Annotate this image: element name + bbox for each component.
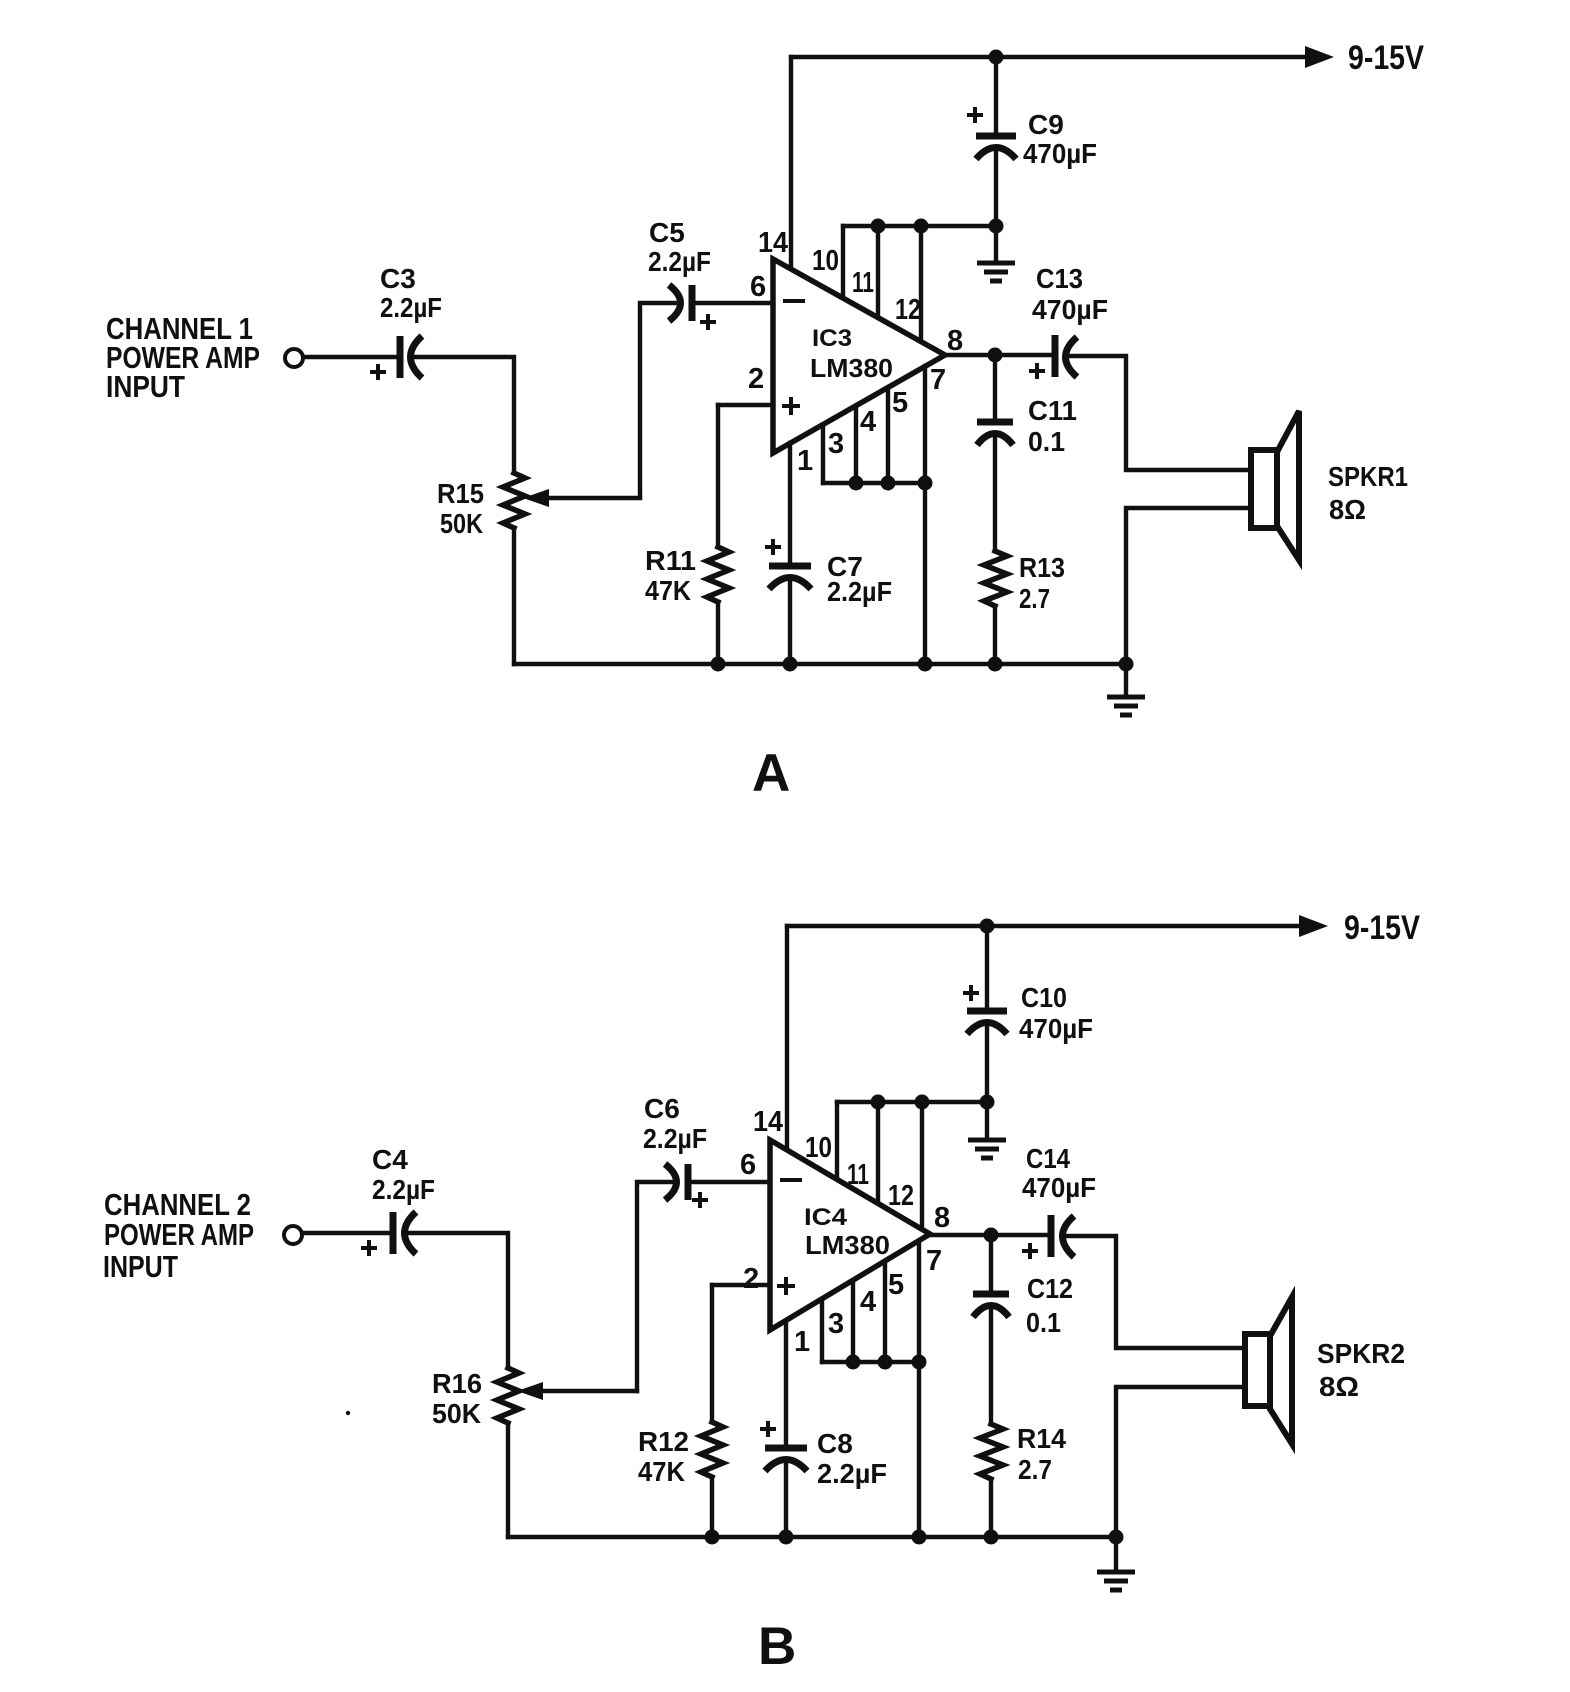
node: bus junction pin7 xyxy=(918,476,933,491)
wire: pin 5 B xyxy=(883,1262,887,1362)
node: rail junction R13/C11 xyxy=(988,657,1003,672)
stray printing speck xyxy=(346,1411,350,1415)
wire: pin 8 output xyxy=(945,353,1053,357)
resistor R12 47K xyxy=(701,1422,723,1477)
node: bus junction pin12 B xyxy=(915,1095,930,1110)
svg-text:SPKR2: SPKR2 xyxy=(1317,1338,1405,1369)
wire: R11 bottom to rail xyxy=(716,602,720,664)
wire: pin 12 B xyxy=(920,1102,924,1230)
node: rail junction speaker return xyxy=(1119,657,1134,672)
wire: R14 bottom to rail B xyxy=(989,1479,993,1537)
wire: V+ supply rail A xyxy=(791,55,1308,59)
svg-text:1: 1 xyxy=(797,445,813,477)
resistor R13 2.7 xyxy=(984,551,1007,606)
wire: C4 to corner above R16 xyxy=(406,1233,508,1368)
svg-text:14: 14 xyxy=(758,227,788,259)
node: rail junction pin7 xyxy=(918,657,933,672)
svg-text:8Ω: 8Ω xyxy=(1329,494,1366,525)
svg-text:6: 6 xyxy=(740,1149,756,1181)
svg-text:3: 3 xyxy=(828,428,844,460)
svg-text:47K: 47K xyxy=(645,575,691,606)
capacitor C9 470uF xyxy=(976,133,1016,140)
svg-text:470µF: 470µF xyxy=(1019,1013,1093,1044)
svg-text:C13: C13 xyxy=(1036,263,1083,294)
svg-text:4: 4 xyxy=(860,406,876,438)
svg-text:C8: C8 xyxy=(817,1428,853,1459)
capacitor C14 470uF xyxy=(1048,1215,1055,1257)
potentiometer R15 50K xyxy=(503,473,525,528)
capacitor C8 2.2uF xyxy=(765,1445,807,1452)
svg-text:2: 2 xyxy=(743,1263,759,1295)
wire: V+ supply rail B xyxy=(787,924,1310,928)
wire: C13 to speaker (top lead) xyxy=(1068,356,1251,470)
wire: C14 to speaker (top lead) B xyxy=(1064,1236,1245,1348)
svg-text:1: 1 xyxy=(794,1326,810,1358)
ground (main, circuit A) xyxy=(1124,664,1128,695)
node: bus junction pin4 B xyxy=(846,1355,861,1370)
capacitor C7 2.2uF xyxy=(769,563,811,570)
node: rail junction pin7 B xyxy=(912,1530,927,1545)
svg-text:2.2µF: 2.2µF xyxy=(380,292,442,323)
node: bus junction pin4 xyxy=(849,476,864,491)
node: junction rail/C10 xyxy=(980,919,995,934)
wire: pin 1 to C7 xyxy=(788,443,792,566)
svg-text:C5: C5 xyxy=(649,217,685,248)
resistor R11 47K xyxy=(707,547,729,602)
svg-text:2.7: 2.7 xyxy=(1018,1454,1052,1485)
wire: C5 to pin 6 xyxy=(692,301,773,305)
wire: pin 11 xyxy=(876,226,880,318)
wire: C12 riser xyxy=(989,1235,993,1294)
resistor R14 2.7 xyxy=(980,1424,1003,1479)
speaker SPKR2 8 ohm xyxy=(1245,1334,1270,1406)
svg-text:R12: R12 xyxy=(638,1426,689,1457)
node: rail junction C8 xyxy=(779,1530,794,1545)
svg-text:7: 7 xyxy=(926,1245,942,1277)
svg-text:14: 14 xyxy=(753,1106,783,1138)
wire: pin 11 B xyxy=(876,1102,880,1204)
wire: pins 3-5 bus B xyxy=(822,1360,919,1364)
ground (C10 bypass) xyxy=(985,1102,989,1138)
svg-text:C10: C10 xyxy=(1021,982,1067,1013)
wire: rail down to C9 xyxy=(994,57,998,136)
wire: C6 to pin 6 B xyxy=(688,1180,770,1184)
svg-text:11: 11 xyxy=(847,1159,869,1191)
svg-text:INPUT: INPUT xyxy=(103,1249,178,1284)
node: bus junction pin7 B xyxy=(912,1355,927,1370)
speaker SPKR1 8 ohm xyxy=(1251,450,1277,528)
node: bus junction pin5 B xyxy=(878,1355,893,1370)
capacitor C5 2.2uF xyxy=(669,285,681,321)
wire: pins 3-5 bus xyxy=(823,481,925,485)
wire: pin 1 to C8 xyxy=(784,1321,788,1448)
wire: R12 top riser xyxy=(710,1285,714,1422)
wire: C11 riser xyxy=(993,355,997,422)
svg-text:INPUT: INPUT xyxy=(106,369,185,404)
svg-text:2.2µF: 2.2µF xyxy=(827,576,892,607)
node: supply arrowhead B xyxy=(1299,915,1328,937)
svg-text:470µF: 470µF xyxy=(1022,1172,1096,1203)
svg-text:12: 12 xyxy=(888,1180,914,1212)
svg-text:0.1: 0.1 xyxy=(1026,1307,1061,1338)
svg-text:IC4: IC4 xyxy=(804,1204,848,1231)
node: rail junction R12 xyxy=(705,1530,720,1545)
svg-text:47K: 47K xyxy=(638,1456,685,1487)
svg-text:50K: 50K xyxy=(432,1398,481,1429)
svg-text:2.2µF: 2.2µF xyxy=(817,1458,887,1489)
svg-text:C11: C11 xyxy=(1028,395,1077,426)
svg-text:R16: R16 xyxy=(432,1368,482,1399)
wire: pin 7 to ground rail xyxy=(923,366,927,664)
svg-text:9-15V: 9-15V xyxy=(1344,909,1420,947)
svg-text:SPKR1: SPKR1 xyxy=(1328,461,1408,492)
capacitor C10 470uF xyxy=(967,1008,1007,1015)
op-amp IC4 LM380 xyxy=(770,1140,930,1330)
wire: pin 4 B xyxy=(851,1281,855,1362)
wire: C11 to rail / R13 xyxy=(993,438,997,551)
svg-text:5: 5 xyxy=(892,387,908,419)
svg-text:B: B xyxy=(758,1617,796,1676)
svg-text:2.2µF: 2.2µF xyxy=(643,1123,707,1154)
svg-text:7: 7 xyxy=(930,364,946,396)
wire: top bus pins 10-12 to C9/ground xyxy=(843,224,996,228)
svg-text:C9: C9 xyxy=(1028,109,1064,140)
node: bus junction C9 xyxy=(989,219,1004,234)
wire: pin 4 xyxy=(854,406,858,483)
svg-text:C3: C3 xyxy=(380,263,416,294)
svg-text:R15: R15 xyxy=(437,478,484,509)
wire: R13 bottom to rail xyxy=(993,606,997,664)
wire: R12 bottom to rail B xyxy=(710,1477,714,1537)
svg-text:10: 10 xyxy=(805,1132,832,1164)
capacitor C6 2.2uF xyxy=(665,1164,677,1200)
svg-text:R14: R14 xyxy=(1017,1423,1066,1454)
wire: top bus pins 10-12 (B) xyxy=(837,1100,987,1104)
node: rail junction speaker return B xyxy=(1109,1530,1124,1545)
node: output junction xyxy=(988,348,1003,363)
svg-text:LM380: LM380 xyxy=(805,1230,890,1260)
wire: C3 to corner above R15 xyxy=(413,357,514,473)
ground (main, circuit B) xyxy=(1114,1537,1118,1570)
capacitor C13 470uF xyxy=(1052,335,1059,377)
wire: ground rail B xyxy=(508,1535,1116,1539)
wire: pin 5 xyxy=(886,388,890,483)
svg-text:8: 8 xyxy=(934,1202,950,1234)
wire: pin 8 output B xyxy=(930,1233,1049,1237)
svg-text:50K: 50K xyxy=(440,508,483,539)
wire: pin 3 B xyxy=(820,1300,824,1362)
svg-text:0.1: 0.1 xyxy=(1028,426,1065,457)
ground (C9 bypass) xyxy=(994,226,998,261)
node: input terminal (channel 2) xyxy=(284,1226,302,1244)
svg-text:10: 10 xyxy=(812,245,839,277)
potentiometer R16 50K xyxy=(497,1368,519,1423)
node: supply arrowhead A xyxy=(1305,46,1334,68)
wire: wiper riser to C5 xyxy=(640,303,676,497)
svg-text:2: 2 xyxy=(748,363,764,395)
svg-text:470µF: 470µF xyxy=(1032,294,1108,325)
svg-text:C4: C4 xyxy=(372,1144,408,1175)
node: bus junction pin11 B xyxy=(871,1095,886,1110)
wire: C9 to top bus xyxy=(994,152,998,226)
svg-text:C6: C6 xyxy=(644,1093,680,1124)
wire: pin 14 riser to rail xyxy=(789,57,793,270)
wire: pin 2 from R11 xyxy=(718,403,773,407)
svg-text:C12: C12 xyxy=(1027,1273,1073,1304)
wire: pin 10 B xyxy=(835,1102,839,1180)
svg-text:C14: C14 xyxy=(1026,1143,1070,1174)
node: bus junction pin11 xyxy=(871,219,886,234)
node: input terminal (channel 1) xyxy=(285,349,303,367)
capacitor C11 0.1 xyxy=(977,419,1013,426)
svg-text:2.2µF: 2.2µF xyxy=(648,246,711,277)
wire: ground rail A xyxy=(514,662,1126,666)
node: output junction B xyxy=(984,1228,999,1243)
node: junction rail/C9 xyxy=(989,50,1004,65)
wire: rail down to C10 xyxy=(985,926,989,1011)
wire: R16 bottom to rail B xyxy=(506,1423,510,1537)
wire: speaker return xyxy=(1126,508,1251,664)
wire: wiper riser to C6 xyxy=(637,1182,671,1391)
node: bus junction C10 xyxy=(980,1095,995,1110)
svg-text:R11: R11 xyxy=(645,545,696,576)
wire: C8 to rail B xyxy=(784,1464,788,1537)
wire: R11 top riser xyxy=(716,405,720,547)
wire: pin 7 to rail B xyxy=(917,1242,921,1537)
svg-text:2.7: 2.7 xyxy=(1019,583,1050,614)
wire: pin 12 xyxy=(919,226,923,342)
wire: speaker return B xyxy=(1116,1387,1245,1537)
svg-text:470µF: 470µF xyxy=(1023,138,1097,169)
svg-text:4: 4 xyxy=(860,1286,876,1318)
op-amp IC3 LM380 xyxy=(773,259,945,453)
wire: R15 bottom to ground rail xyxy=(512,528,516,664)
svg-text:R13: R13 xyxy=(1019,552,1065,583)
capacitor C12 0.1 xyxy=(973,1291,1009,1298)
capacitor C4 2.2uF xyxy=(390,1212,397,1254)
wire: pin 2 from R12 xyxy=(712,1283,770,1287)
capacitor C3 2.2uF xyxy=(397,336,404,378)
svg-text:12: 12 xyxy=(895,294,921,326)
node: bus junction pin12 xyxy=(914,219,929,234)
wire: input to C3 xyxy=(304,355,397,359)
svg-text:5: 5 xyxy=(888,1269,904,1301)
wire: pin 14 riser to rail B xyxy=(785,926,789,1151)
wire: C12 to rail / R14 xyxy=(989,1310,993,1424)
wire: C7 to rail xyxy=(788,582,792,664)
svg-text:POWER AMP: POWER AMP xyxy=(104,1217,254,1252)
svg-text:2.2µF: 2.2µF xyxy=(372,1174,435,1205)
svg-text:6: 6 xyxy=(750,271,766,303)
node: rail junction R11 xyxy=(711,657,726,672)
svg-text:11: 11 xyxy=(852,267,874,299)
svg-text:IC3: IC3 xyxy=(812,325,852,352)
svg-text:8: 8 xyxy=(947,325,963,357)
node: rail junction C7 xyxy=(783,657,798,672)
svg-text:8Ω: 8Ω xyxy=(1319,1371,1359,1402)
svg-text:9-15V: 9-15V xyxy=(1348,39,1424,77)
wire: pin 10 xyxy=(841,226,845,299)
wire: input to C4 xyxy=(303,1231,390,1235)
node: rail junction R14/C12 xyxy=(984,1530,999,1545)
wire: C10 to top bus B xyxy=(985,1027,989,1102)
svg-text:LM380: LM380 xyxy=(810,353,893,383)
svg-text:A: A xyxy=(752,744,790,803)
svg-text:3: 3 xyxy=(828,1308,844,1340)
node: bus junction pin5 xyxy=(881,476,896,491)
wire: pin 3 xyxy=(821,425,825,483)
